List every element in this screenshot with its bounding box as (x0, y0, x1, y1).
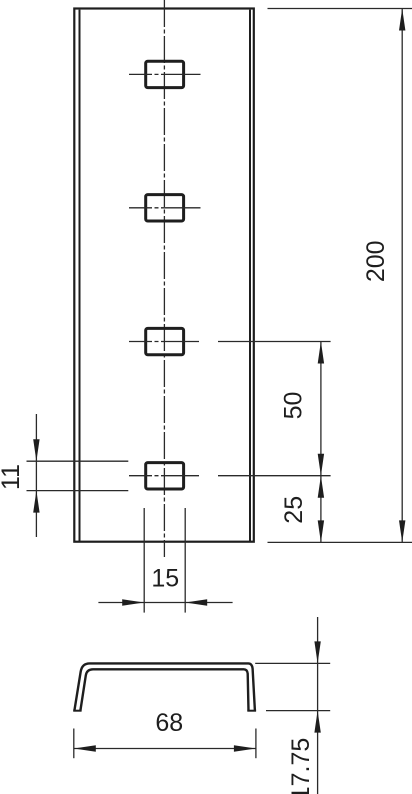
dimension 68 arrow right (234, 745, 256, 751)
svg-text:200: 200 (362, 240, 390, 282)
dimension 15 line (98, 602, 232, 604)
slot 1 (146, 61, 184, 87)
dimension 200 extension line top (268, 8, 412, 10)
slot 3 (146, 328, 184, 354)
vertical centerline (163, 0, 165, 557)
dimension 11 extension line top (27, 460, 129, 462)
dimension 68 extension line left (73, 729, 75, 759)
dimension 17.75 extension line top (255, 662, 330, 664)
slot 4 (146, 463, 184, 489)
slot 4 centerline (129, 475, 199, 477)
svg-text:50: 50 (279, 392, 307, 420)
profile left leg end cap (73, 710, 81, 712)
dimension 200 arrow top (399, 9, 405, 31)
dimension 200 line (401, 9, 403, 543)
dimension 68 extension line right (255, 729, 257, 759)
dimension 15 extension line left (143, 508, 145, 613)
dimension 200 extension line bottom (268, 541, 412, 543)
dimension 17.75 arrow top (314, 641, 320, 663)
dimension 15 arrow left (122, 599, 144, 605)
profile inner contour (80, 669, 248, 710)
svg-text:15: 15 (151, 565, 179, 593)
dimension 50 extension line (slot 3 center) (218, 341, 331, 343)
slot 2 centerline (129, 207, 201, 209)
svg-text:25: 25 (280, 496, 308, 524)
slot 2 (146, 195, 184, 221)
dimension 50/25 line (320, 342, 322, 543)
dimension 17.75 arrow bottom (314, 711, 320, 733)
slot 3 centerline (129, 341, 199, 343)
dimension 50/25 extension line (slot 4 center) (218, 475, 331, 477)
dimension 15 extension line right (184, 508, 186, 613)
left fold line (79, 10, 81, 542)
svg-text:11: 11 (0, 464, 25, 490)
plate outline (front view) (74, 9, 254, 542)
dimension 11 arrow top (33, 439, 39, 461)
dimension 200 arrow bottom (399, 520, 405, 542)
dimension 25 arrow bottom (318, 520, 324, 542)
dimension 25 arrow top (318, 476, 324, 498)
dimension 50 arrow bottom (318, 454, 324, 476)
dimension 68 arrow left (74, 745, 96, 751)
profile outer contour (74, 663, 255, 710)
slot 1 centerline (129, 73, 201, 75)
dimension 11 line (35, 414, 37, 537)
dimension 15 arrow right (185, 599, 207, 605)
dimension 68 line (74, 748, 256, 750)
dimension 11 arrow bottom (33, 491, 39, 513)
dimension 17.75 line (317, 617, 319, 794)
svg-text:17.75: 17.75 (287, 738, 315, 794)
dimension 50 arrow top (318, 342, 324, 364)
right fold line (249, 10, 251, 542)
svg-text:68: 68 (155, 709, 183, 737)
profile right leg end cap (247, 710, 256, 712)
dimension 11 extension line bottom (27, 490, 129, 492)
dimension 17.75 extension line bottom (266, 710, 330, 712)
